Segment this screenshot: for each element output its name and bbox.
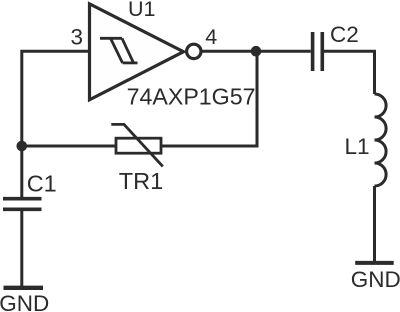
svg-text:GND: GND: [0, 291, 49, 312]
wire C2 to top-right corner down to L1: [324, 51, 375, 94]
wire output rail from bubble to C2: [201, 50, 311, 53]
wire TR1 left segment: [22, 145, 116, 148]
svg-text:C2: C2: [330, 22, 359, 47]
capacitor C1 plate top: [3, 197, 42, 201]
svg-text:3: 3: [70, 25, 83, 50]
wire L1 to right ground: [373, 186, 376, 261]
node B output junction: [251, 46, 262, 57]
ground bar (left): [4, 286, 44, 290]
thermistor TR1 diagonal stroke: [111, 124, 163, 166]
wire TR1 right segment up to output node: [161, 51, 257, 146]
inverter U1 triangle: [90, 4, 184, 100]
svg-text:U1: U1: [128, 0, 155, 21]
wire C1 to left ground: [20, 211, 23, 286]
hysteresis symbol inside U1: [100, 38, 138, 63]
capacitor C2 plate right: [320, 32, 324, 71]
thermistor TR1 body: [116, 138, 161, 153]
output bubble of U1: [187, 44, 201, 58]
svg-text:4: 4: [205, 25, 217, 49]
svg-text:GND: GND: [351, 267, 400, 292]
capacitor C1 plate bottom: [3, 208, 42, 212]
svg-text:L1: L1: [345, 134, 370, 159]
svg-text:74AXP1G57: 74AXP1G57: [127, 83, 256, 109]
svg-text:C1: C1: [27, 171, 57, 197]
capacitor C2 plate left: [311, 32, 315, 71]
wire input rail to pin 3: [22, 51, 90, 197]
node A feedback junction (left): [17, 141, 28, 152]
inductor L1: [375, 94, 387, 186]
ground bar (right): [355, 261, 394, 265]
svg-text:TR1: TR1: [119, 168, 163, 194]
